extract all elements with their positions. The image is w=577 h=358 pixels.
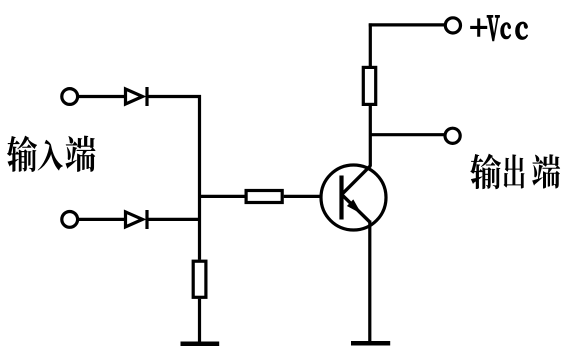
circuit: diode AND gate with inverter transistor [62, 18, 461, 344]
wire collector node to output terminal [370, 133, 445, 136]
wire node A to base resistor R2 [200, 195, 247, 198]
wire D1 cathode to node A [147, 95, 201, 98]
wire D2 cathode to node A [147, 218, 201, 221]
transistor Q1 [321, 165, 386, 230]
wire Vcc rail horizontal [369, 23, 445, 26]
diode D2 [126, 210, 148, 229]
wire input1 to diode D1 anode [79, 95, 125, 98]
label 输入端 (input terminal) [7, 136, 96, 172]
wire R2 to transistor base [284, 195, 321, 198]
wire R3 to Vcc rail [369, 23, 372, 66]
wire R1 to ground [198, 299, 201, 342]
label 输出端 (output terminal) [470, 154, 560, 190]
diode D1 [126, 87, 148, 106]
ground (R1) [181, 341, 220, 346]
resistor R1 (pull-down) [193, 261, 206, 297]
resistor R2 (base resistor) [246, 191, 282, 203]
ground (emitter) [351, 341, 390, 346]
label +Vcc [471, 16, 527, 41]
output terminal [445, 128, 460, 143]
input terminal 2 (bottom input) [62, 212, 78, 228]
wire collector to resistor R3 [369, 106, 372, 167]
wire emitter to ground [368, 221, 371, 343]
terminal +Vcc [445, 18, 460, 33]
resistor R3 (collector load) [363, 67, 375, 104]
wire node A vertical bus [198, 95, 201, 260]
input terminal 1 (top input) [62, 89, 78, 105]
wire input2 to diode D2 anode [79, 218, 125, 221]
